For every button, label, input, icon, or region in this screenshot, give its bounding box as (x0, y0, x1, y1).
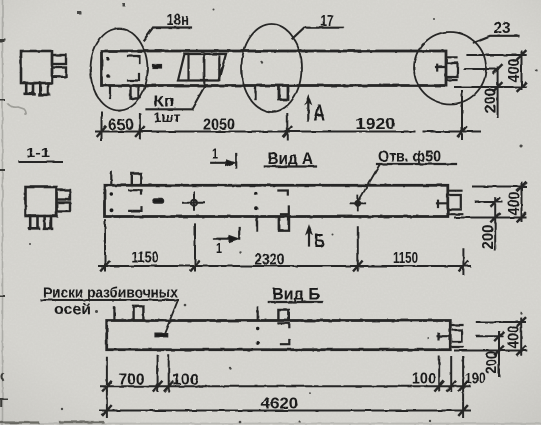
dim text 2050 (203, 117, 235, 134)
dim text 1150 left (132, 250, 159, 267)
dim row top view: extension lines (102, 91, 463, 141)
label 23 leader (474, 36, 519, 43)
edge marks (0, 40, 7, 406)
dim row1 bottom view: extension lines (107, 356, 463, 417)
detail ellipse middle (17) (242, 24, 302, 112)
small plate mark middle view (153, 199, 164, 203)
label Kp underline (147, 108, 193, 110)
mid leg below beam middle view (256, 218, 258, 230)
mid embed dots bottom view (256, 327, 260, 345)
left tab above beam bottom view (134, 306, 144, 320)
dim line 200 bottom view (498, 332, 500, 376)
right end tenon middle view (449, 191, 462, 215)
label 18n (167, 12, 190, 29)
svg-text:1: 1 (212, 146, 218, 163)
left pin above beam (110, 172, 112, 184)
dim text 4620 (261, 396, 298, 413)
ticks 200 bottom view (495, 332, 503, 354)
bottom edge scan streak (0, 423, 541, 425)
left pin above beam bottom view (113, 308, 115, 320)
title Vid B (272, 285, 320, 304)
tick marks top dim row (98, 127, 467, 136)
dim row2 bottom view: dimension line 4620 (100, 410, 470, 412)
svg-text:190: 190 (465, 371, 486, 388)
Kp inner line 3 (218, 57, 220, 81)
ticks 200 top view (494, 65, 502, 91)
ticks bottom dim row1 (103, 382, 467, 391)
svg-text:осей: осей (54, 302, 91, 318)
beam outline bottom view (107, 321, 451, 350)
section S1 tab upper (52, 55, 66, 64)
Kp inner line 2 (203, 55, 205, 87)
svg-text:Вид Б: Вид Б (272, 285, 320, 304)
svg-text:400: 400 (506, 59, 523, 83)
dim line 200 middle view (494, 198, 496, 250)
label Otv f50 underline (377, 163, 456, 165)
dim line 400 top view (521, 51, 523, 89)
label Kp (154, 94, 175, 111)
dim text 700 (119, 372, 145, 389)
dim text 400 top view (506, 59, 523, 83)
ticks bottom dim row2 (103, 406, 467, 415)
left leg below beam (109, 86, 111, 98)
svg-text:1920: 1920 (356, 116, 396, 133)
ticks 400 bottom view (517, 318, 525, 355)
left tab above beam (132, 174, 141, 186)
axis crosshair at 1150 mark (183, 192, 205, 209)
section S1 tab lower (52, 68, 66, 77)
label 17 leader (293, 28, 344, 39)
section S1 leg 1 (25, 83, 34, 94)
svg-text:700: 700 (119, 372, 145, 389)
svg-text:Вид А: Вид А (268, 149, 314, 168)
svg-text:Кп: Кп (154, 94, 175, 111)
svg-text:400: 400 (506, 326, 523, 349)
section 1-1 body (26, 187, 57, 216)
ticks 400 top view (518, 51, 526, 91)
dim line 400 middle view (521, 183, 523, 222)
dim line 200 top view (497, 68, 499, 118)
svg-text:200: 200 (483, 88, 500, 113)
right dims bottom view: extension lines (455, 322, 526, 351)
mid tab above beam bottom view (278, 310, 288, 320)
Kp inner line 1 (187, 55, 189, 81)
faint squiggle lower-left of section S1 (8, 104, 26, 114)
view arrow A (307, 99, 309, 121)
svg-text:А: А (314, 100, 326, 126)
left embed corner marks middle view (129, 190, 141, 211)
mid leg below beam (254, 86, 256, 99)
svg-text:200: 200 (480, 225, 497, 250)
svg-text:1-1: 1-1 (26, 145, 50, 160)
ticks middle dim row (101, 262, 467, 271)
dim row middle view: extension lines (105, 220, 463, 274)
dim row middle view: dimension line (99, 265, 470, 267)
svg-text:2050: 2050 (203, 117, 235, 134)
right end hook detail (436, 65, 445, 71)
dim text 100 right (412, 371, 436, 388)
label 18n leader (144, 28, 191, 41)
svg-text:400: 400 (506, 192, 523, 216)
label riski razbivochnykh (43, 286, 178, 302)
ticks 200 middle view (491, 198, 499, 222)
section 1-1 leg 1 (29, 216, 39, 228)
section 1-1 tab lower (57, 203, 71, 212)
title Vid B underline (269, 301, 323, 303)
section 1-1 tab upper (57, 190, 71, 200)
left edge scan streak (2, 0, 4, 425)
section mark 1 (bottom) (214, 228, 239, 258)
label 23 (494, 20, 511, 37)
dim text 1920 (356, 116, 396, 133)
dim line 400 bottom view (520, 318, 522, 355)
dim text 650 (108, 117, 134, 134)
dim text 2320 (255, 252, 285, 269)
dim text 100 left (172, 372, 198, 389)
mid hanging box below beam (279, 86, 288, 100)
dim row1 bottom view: dimension line (101, 385, 470, 387)
riska mark bar (155, 333, 167, 337)
svg-text:1150: 1150 (132, 250, 159, 267)
title Vid A (268, 149, 314, 168)
left hanging box below beam (131, 86, 139, 99)
svg-text:1: 1 (216, 240, 222, 257)
svg-text:1шт: 1шт (154, 109, 181, 125)
label B (315, 231, 325, 251)
label 1-1 underline (20, 161, 63, 163)
riski leader (165, 300, 179, 334)
svg-text:4620: 4620 (261, 396, 298, 413)
beam outline middle view (105, 185, 448, 216)
label 17 (321, 13, 334, 30)
Otv f50 leader (358, 164, 380, 202)
beam outline top view (102, 51, 447, 86)
svg-text:100: 100 (412, 371, 436, 388)
left ext line row2 (106, 391, 108, 417)
dim text 400 middle view (506, 192, 523, 216)
label riski underline (41, 299, 178, 301)
svg-text:2320: 2320 (255, 252, 285, 269)
svg-text:100: 100 (172, 372, 198, 389)
small plate mark in beam (153, 65, 162, 69)
label A (314, 100, 326, 126)
section S1 leg 2 (39, 83, 49, 95)
right end tenon bottom view (452, 325, 463, 347)
dim text 200 top view (483, 88, 500, 113)
svg-text:23: 23 (494, 20, 511, 37)
Kp parallelogram item (178, 54, 226, 81)
left embed corner marks (128, 56, 140, 81)
view arrow B (308, 230, 310, 246)
right end hook bottom view (438, 334, 449, 340)
right dims top view: extension lines (455, 55, 526, 87)
svg-text:Б: Б (315, 231, 325, 251)
mid embed corner marks bottom view (278, 323, 289, 344)
hole crosshair (Otv f50) (351, 196, 366, 211)
label Otv f50 (378, 149, 441, 166)
label 1sht (154, 109, 181, 125)
dim text 200 middle view (480, 225, 497, 250)
left embed dots (106, 57, 110, 77)
title Vid A underline (265, 165, 316, 167)
ticks 400 middle view (518, 183, 526, 222)
mid embed corner marks middle view (278, 191, 288, 215)
mid hanging box below beam middle view (279, 218, 289, 231)
label 1-1 (26, 145, 50, 160)
dim text 1150 right (393, 250, 418, 267)
svg-text:1150: 1150 (393, 250, 418, 267)
section S1 body (21, 51, 52, 83)
svg-text:200: 200 (484, 351, 501, 374)
right end hook middle view (437, 201, 447, 207)
section 1-1 leg 2 (44, 216, 52, 229)
dim row top view: dimension line (96, 131, 480, 133)
label osey (54, 302, 91, 318)
dim text 190 (465, 371, 486, 388)
mid embed dots middle view (254, 192, 258, 210)
mid pin above beam bottom view (257, 308, 259, 320)
dim text 200 bottom view (484, 351, 501, 374)
section mark 1 (top) (211, 146, 236, 168)
Kp leader (192, 87, 205, 109)
dim text 400 bottom view (506, 326, 523, 349)
right dims middle view: extension lines (455, 187, 526, 218)
detail circle right (23) (414, 32, 486, 104)
svg-text:650: 650 (108, 117, 134, 134)
left embed dots middle view (110, 192, 114, 212)
right end tenon top view (447, 57, 458, 80)
detail ellipse left (18n) (91, 29, 148, 111)
